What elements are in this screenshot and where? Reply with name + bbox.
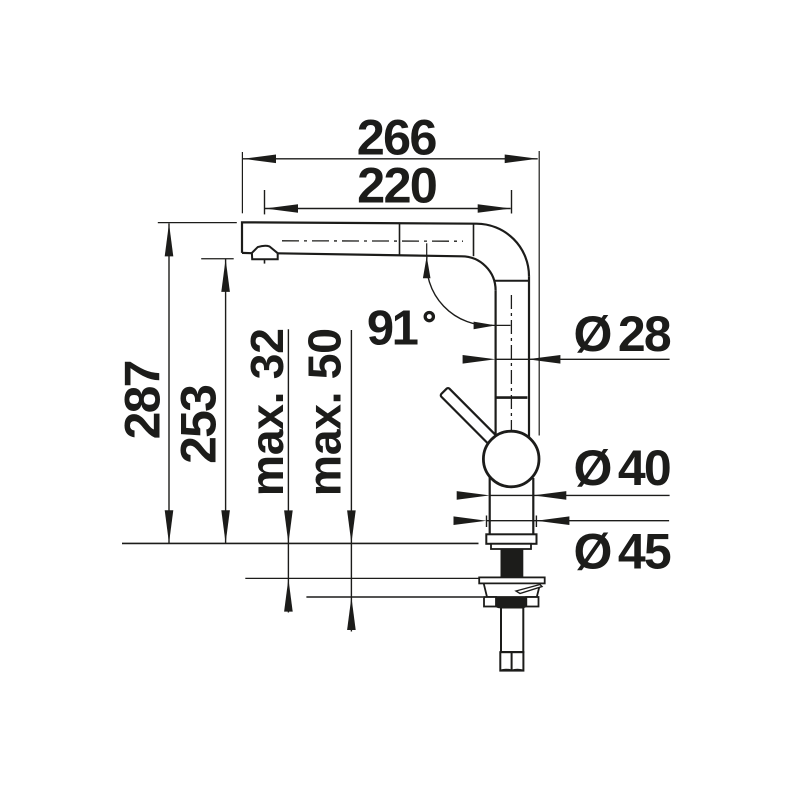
svg-text:Ø: Ø <box>574 524 613 580</box>
dimension 287 <box>158 223 237 544</box>
pipe joint <box>495 280 530 282</box>
pipe left edge <box>495 290 497 436</box>
angle dimension 91 degrees <box>423 243 511 329</box>
dimension 220 <box>265 204 511 213</box>
lever handle <box>440 387 497 445</box>
pipe right edge <box>528 276 530 437</box>
threaded stud <box>501 608 523 653</box>
max50 reference line <box>306 596 483 598</box>
extension line 266 right <box>538 151 540 436</box>
ball joint <box>483 431 539 487</box>
svg-text:253: 253 <box>170 386 226 464</box>
spout underside left <box>242 252 252 255</box>
spout centerline <box>282 240 463 242</box>
dimension diameter 45 <box>454 516 670 528</box>
mounting flange <box>479 577 545 583</box>
stabilizing plate <box>484 583 541 597</box>
aerator <box>252 246 278 264</box>
pipe centerline <box>510 295 512 433</box>
dimension max50 <box>347 330 356 632</box>
spout underside right <box>278 253 462 256</box>
elbow inner curve <box>462 256 496 290</box>
svg-text:287: 287 <box>114 361 170 439</box>
svg-text:91: 91 <box>367 302 418 356</box>
extension tick 220 right <box>511 190 513 214</box>
svg-text:Ø: Ø <box>574 440 613 496</box>
svg-text:40: 40 <box>618 440 670 496</box>
svg-text:28: 28 <box>618 306 671 362</box>
svg-text:45: 45 <box>618 524 671 580</box>
dimension 253 <box>201 259 234 544</box>
elbow joint <box>473 224 475 257</box>
clamp wedge <box>516 585 542 594</box>
extension tick 220 left <box>264 190 266 214</box>
rubber seal (black) <box>495 597 528 608</box>
countertop line <box>122 542 479 544</box>
right notch <box>526 597 538 607</box>
svg-text:220: 220 <box>357 157 437 214</box>
base flange <box>486 534 536 544</box>
max32 reference line <box>245 577 478 579</box>
svg-text:max. 32: max. 32 <box>241 328 293 496</box>
dimension diameter 40 <box>457 491 670 500</box>
elbow outer curve <box>477 224 530 277</box>
svg-text:Ø: Ø <box>574 306 613 362</box>
dimension max32 <box>284 329 293 612</box>
threaded shank (black) <box>501 549 524 577</box>
dimension 266 <box>243 155 538 164</box>
hex nut <box>500 652 523 670</box>
body below ball <box>489 477 491 535</box>
base step <box>491 544 531 549</box>
extension line 266 left <box>241 152 243 213</box>
dimension diameter 28 <box>463 355 670 364</box>
spout body outline <box>242 222 529 437</box>
left notch <box>484 597 496 607</box>
svg-text:max. 50: max. 50 <box>298 328 350 496</box>
body joint <box>496 396 528 399</box>
pull-out head joint <box>399 223 401 256</box>
